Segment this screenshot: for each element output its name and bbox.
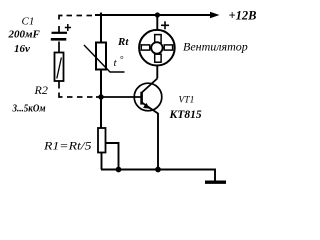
- thermistor Rt diagonal with foot: [84, 45, 125, 72]
- fan motor M1 outer circle: [139, 30, 175, 66]
- wire left rail middle segment: [100, 70, 102, 129]
- capacitor C1 lead bottom: [58, 42, 60, 53]
- svg-text:КТ815: КТ815: [169, 109, 202, 121]
- svg-text:C1: C1: [22, 16, 35, 28]
- resistor R2 diagonal mark: [57, 58, 62, 79]
- wire base line to VT1: [96, 96, 141, 98]
- node junction dot fan/+12V: [155, 12, 160, 17]
- wire dashed from R2 to base node: [59, 93, 93, 98]
- svg-text:R2: R2: [34, 83, 48, 97]
- transistor VT1 collector line: [142, 79, 158, 93]
- wire bottom rail: [101, 170, 215, 182]
- fan lead top: [156, 15, 158, 29]
- fan polarity plus sign: [161, 21, 169, 29]
- fan lead bottom to collector: [156, 66, 158, 79]
- fan hub circle: [151, 42, 162, 53]
- svg-text:R1=Rt/5: R1=Rt/5: [43, 138, 92, 152]
- thermistor Rt body: [96, 43, 106, 70]
- svg-text:Вентилятор: Вентилятор: [183, 40, 248, 54]
- transistor VT1 emitter line: [142, 103, 158, 114]
- wire top +12V line: [95, 14, 211, 16]
- svg-text:+12В: +12В: [229, 9, 257, 23]
- transistor VT1 circle: [134, 83, 162, 111]
- wire dashed top from C1 to +12V rail: [59, 16, 92, 20]
- svg-text:°: °: [120, 55, 124, 65]
- svg-text:VT1: VT1: [179, 95, 195, 105]
- svg-text:Rt: Rt: [117, 36, 129, 48]
- fan blade bottom: [155, 54, 161, 62]
- wire R1 tap to bottom rail: [106, 143, 119, 170]
- svg-text:3...5кОм: 3...5кОм: [12, 104, 46, 115]
- node junction dot emitter/bottom: [155, 167, 161, 173]
- polarity plus sign of C1: [65, 24, 71, 31]
- wire left rail top segment: [100, 13, 102, 43]
- capacitor C1 plate top: [52, 32, 68, 34]
- fan blade right: [164, 45, 172, 50]
- resistor R1 body: [98, 128, 106, 153]
- resistor R2 lead bottom: [58, 81, 60, 89]
- fan blade top: [155, 35, 161, 45]
- svg-text:200мF: 200мF: [8, 29, 41, 41]
- node junction dot base node: [98, 94, 103, 99]
- ground symbol: [205, 180, 226, 183]
- resistor R1 lead bottom: [101, 153, 103, 170]
- fan blade left: [141, 45, 149, 50]
- node junction dot tap/bottom: [116, 167, 122, 173]
- svg-text:16v: 16v: [14, 43, 30, 55]
- resistor R2 body: [55, 53, 64, 82]
- transistor VT1 emitter arrowhead: [143, 103, 150, 109]
- capacitor C1 plate bottom: [51, 38, 67, 41]
- capacitor C1 lead top: [58, 26, 60, 33]
- transistor VT1 emitter lead down: [157, 113, 159, 170]
- transistor VT1 base bar: [140, 92, 143, 105]
- arrowhead +12V: [210, 12, 220, 19]
